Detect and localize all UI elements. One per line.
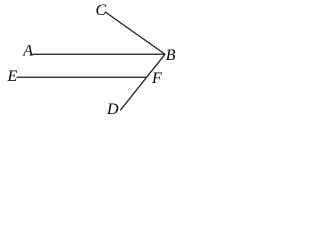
wire line EF — [17, 76, 147, 78]
svg-text:E: E — [7, 68, 18, 85]
svg-text:B: B — [166, 47, 176, 64]
svg-text:A: A — [22, 42, 33, 59]
svg-text:D: D — [106, 101, 119, 118]
wire line AB — [32, 53, 165, 55]
svg-text:C: C — [96, 2, 107, 19]
wire line BD through F — [120, 54, 165, 110]
wire line CB — [105, 12, 165, 55]
svg-text:F: F — [151, 70, 162, 87]
